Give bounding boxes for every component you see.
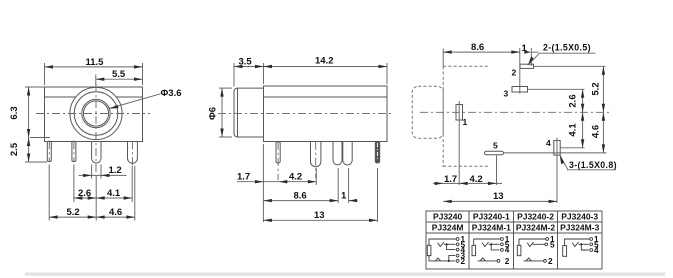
svg-text:13: 13 (493, 191, 504, 202)
svg-text:4: 4 (594, 246, 599, 255)
svg-text:4.2: 4.2 (470, 174, 483, 185)
schematic cell 2 (PJ3240-1) (472, 235, 510, 266)
front view jack barrel circles (70, 87, 122, 139)
dimension 6.3 / 2.5 (left side) (9, 87, 50, 162)
pad 4 (546, 138, 585, 204)
svg-text:4.1: 4.1 (568, 123, 579, 137)
svg-text:PJ324M-3: PJ324M-3 (560, 223, 599, 233)
svg-text:PJ324M-1: PJ324M-1 (472, 223, 511, 233)
label 2-(1.5X0.5) with leader (528, 43, 596, 66)
svg-text:2: 2 (548, 257, 553, 266)
side pin E (dark) (375, 142, 380, 163)
svg-text:11.5: 11.5 (86, 57, 105, 68)
svg-text:5.2: 5.2 (67, 207, 80, 218)
svg-text:2.6: 2.6 (78, 188, 91, 199)
svg-text:2.6: 2.6 (568, 94, 579, 107)
table grid (426, 211, 602, 269)
dimension 1.2 (center pin width) (79, 165, 127, 179)
svg-text:Φ6: Φ6 (208, 107, 219, 120)
pad 5 (485, 141, 607, 186)
front pin 4 centerline (131, 141, 133, 168)
front view vertical centerline (95, 84, 97, 172)
pad 3 (504, 87, 585, 99)
schematic cell 4 (PJ3240-3) (563, 235, 599, 256)
dimension 5.2 / 4.6 (49, 165, 135, 221)
svg-text:PJ3240-1: PJ3240-1 (473, 212, 510, 222)
table header row 2 (432, 223, 600, 233)
svg-text:3.5: 3.5 (239, 56, 253, 67)
svg-text:4.6: 4.6 (109, 207, 122, 218)
front pin 3 (center) (92, 141, 101, 163)
front pin 1 (47, 141, 51, 161)
side pin D (343, 142, 352, 165)
label diameter 3.6 with leader (109, 88, 182, 109)
svg-text:PJ324M-2: PJ324M-2 (516, 223, 555, 233)
svg-text:5: 5 (550, 240, 555, 249)
side pin A (276, 142, 280, 180)
bottom view barrel hidden outline (412, 86, 443, 138)
faint scan band at bottom (25, 273, 665, 276)
svg-text:PJ324M: PJ324M (432, 223, 464, 233)
dimension 1.7 / 4.2 (237, 144, 316, 222)
svg-text:PJ3240-3: PJ3240-3 (561, 212, 598, 222)
side view barrel (234, 88, 264, 137)
svg-text:PJ3240: PJ3240 (433, 212, 463, 222)
dimension 5.5 (96, 69, 143, 85)
svg-text:1: 1 (463, 117, 468, 127)
svg-text:2-(1.5X0.5): 2-(1.5X0.5) (543, 43, 591, 53)
svg-text:3-(1.5X0.8): 3-(1.5X0.8) (569, 160, 617, 170)
schematic cell 3 (PJ3240-2) (517, 235, 555, 266)
svg-text:PJ3240-2: PJ3240-2 (517, 212, 554, 222)
bottom view body hidden outline (443, 49, 489, 167)
svg-text:4.1: 4.1 (107, 188, 121, 199)
table header row 1 (433, 212, 598, 222)
dimension 8.6 / 1 (side view) (263, 168, 357, 203)
svg-text:2: 2 (461, 257, 466, 266)
svg-text:5.2: 5.2 (591, 82, 602, 95)
svg-text:3: 3 (504, 89, 509, 99)
svg-text:8.6: 8.6 (471, 42, 484, 53)
svg-text:13: 13 (314, 210, 325, 221)
dimension 2.6 / 4.1 (bottom view right, inner) (568, 89, 585, 148)
svg-text:2: 2 (512, 68, 517, 78)
dimension diameter 6 (barrel) (208, 88, 233, 137)
side view centerline (218, 113, 393, 115)
svg-text:2: 2 (505, 257, 510, 266)
dimension 13 (bottom view) (443, 191, 557, 203)
dimension 11.5 (45, 57, 143, 85)
side pin C (333, 142, 342, 165)
side view body (264, 86, 388, 142)
svg-text:4.6: 4.6 (591, 125, 602, 138)
svg-text:14.2: 14.2 (315, 56, 334, 67)
dimension 13 (side view) (263, 168, 377, 222)
svg-text:5: 5 (493, 141, 498, 151)
front view body outline (45, 87, 143, 141)
dimension 5.2 / 4.6 (bottom view right, outer) (591, 66, 606, 153)
svg-text:4: 4 (546, 138, 551, 148)
front view horizontal centerline (36, 113, 150, 115)
svg-text:1.2: 1.2 (109, 165, 122, 176)
label 3-(1.5X0.8) with leader (560, 155, 617, 170)
svg-text:1.7: 1.7 (444, 174, 457, 185)
dimension 1.7 / 4.2 (bottom view) (433, 174, 502, 185)
svg-text:1: 1 (522, 43, 528, 54)
svg-text:4: 4 (505, 246, 510, 255)
dimension 2.6 / 4.1 (74, 165, 132, 221)
dimension 3.5 / 14.2 (234, 56, 387, 87)
svg-text:6.3: 6.3 (9, 106, 20, 119)
front pin 2 (72, 141, 76, 161)
dimension 8.6 / 1 (bottom view, top) (443, 42, 538, 66)
svg-text:1: 1 (341, 190, 347, 201)
bottom view centerline (420, 111, 612, 113)
pad 2 (512, 48, 606, 94)
front pin 4 (128, 141, 138, 163)
svg-text:1.7: 1.7 (237, 171, 250, 182)
svg-text:Φ3.6: Φ3.6 (161, 88, 182, 99)
svg-text:8.6: 8.6 (294, 190, 307, 201)
svg-text:2.5: 2.5 (9, 142, 20, 156)
svg-text:5.5: 5.5 (112, 69, 126, 80)
schematic cell 1 (PJ3240) (427, 235, 465, 266)
side pin B (311, 142, 321, 178)
pad 1 (456, 101, 468, 185)
svg-text:4.2: 4.2 (289, 171, 302, 182)
